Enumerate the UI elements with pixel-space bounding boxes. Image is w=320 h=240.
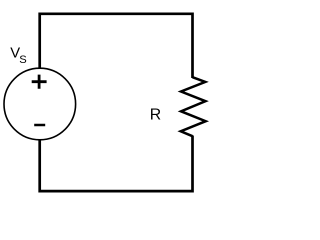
svg-text:S: S xyxy=(19,54,26,66)
svg-text:R: R xyxy=(150,107,161,124)
